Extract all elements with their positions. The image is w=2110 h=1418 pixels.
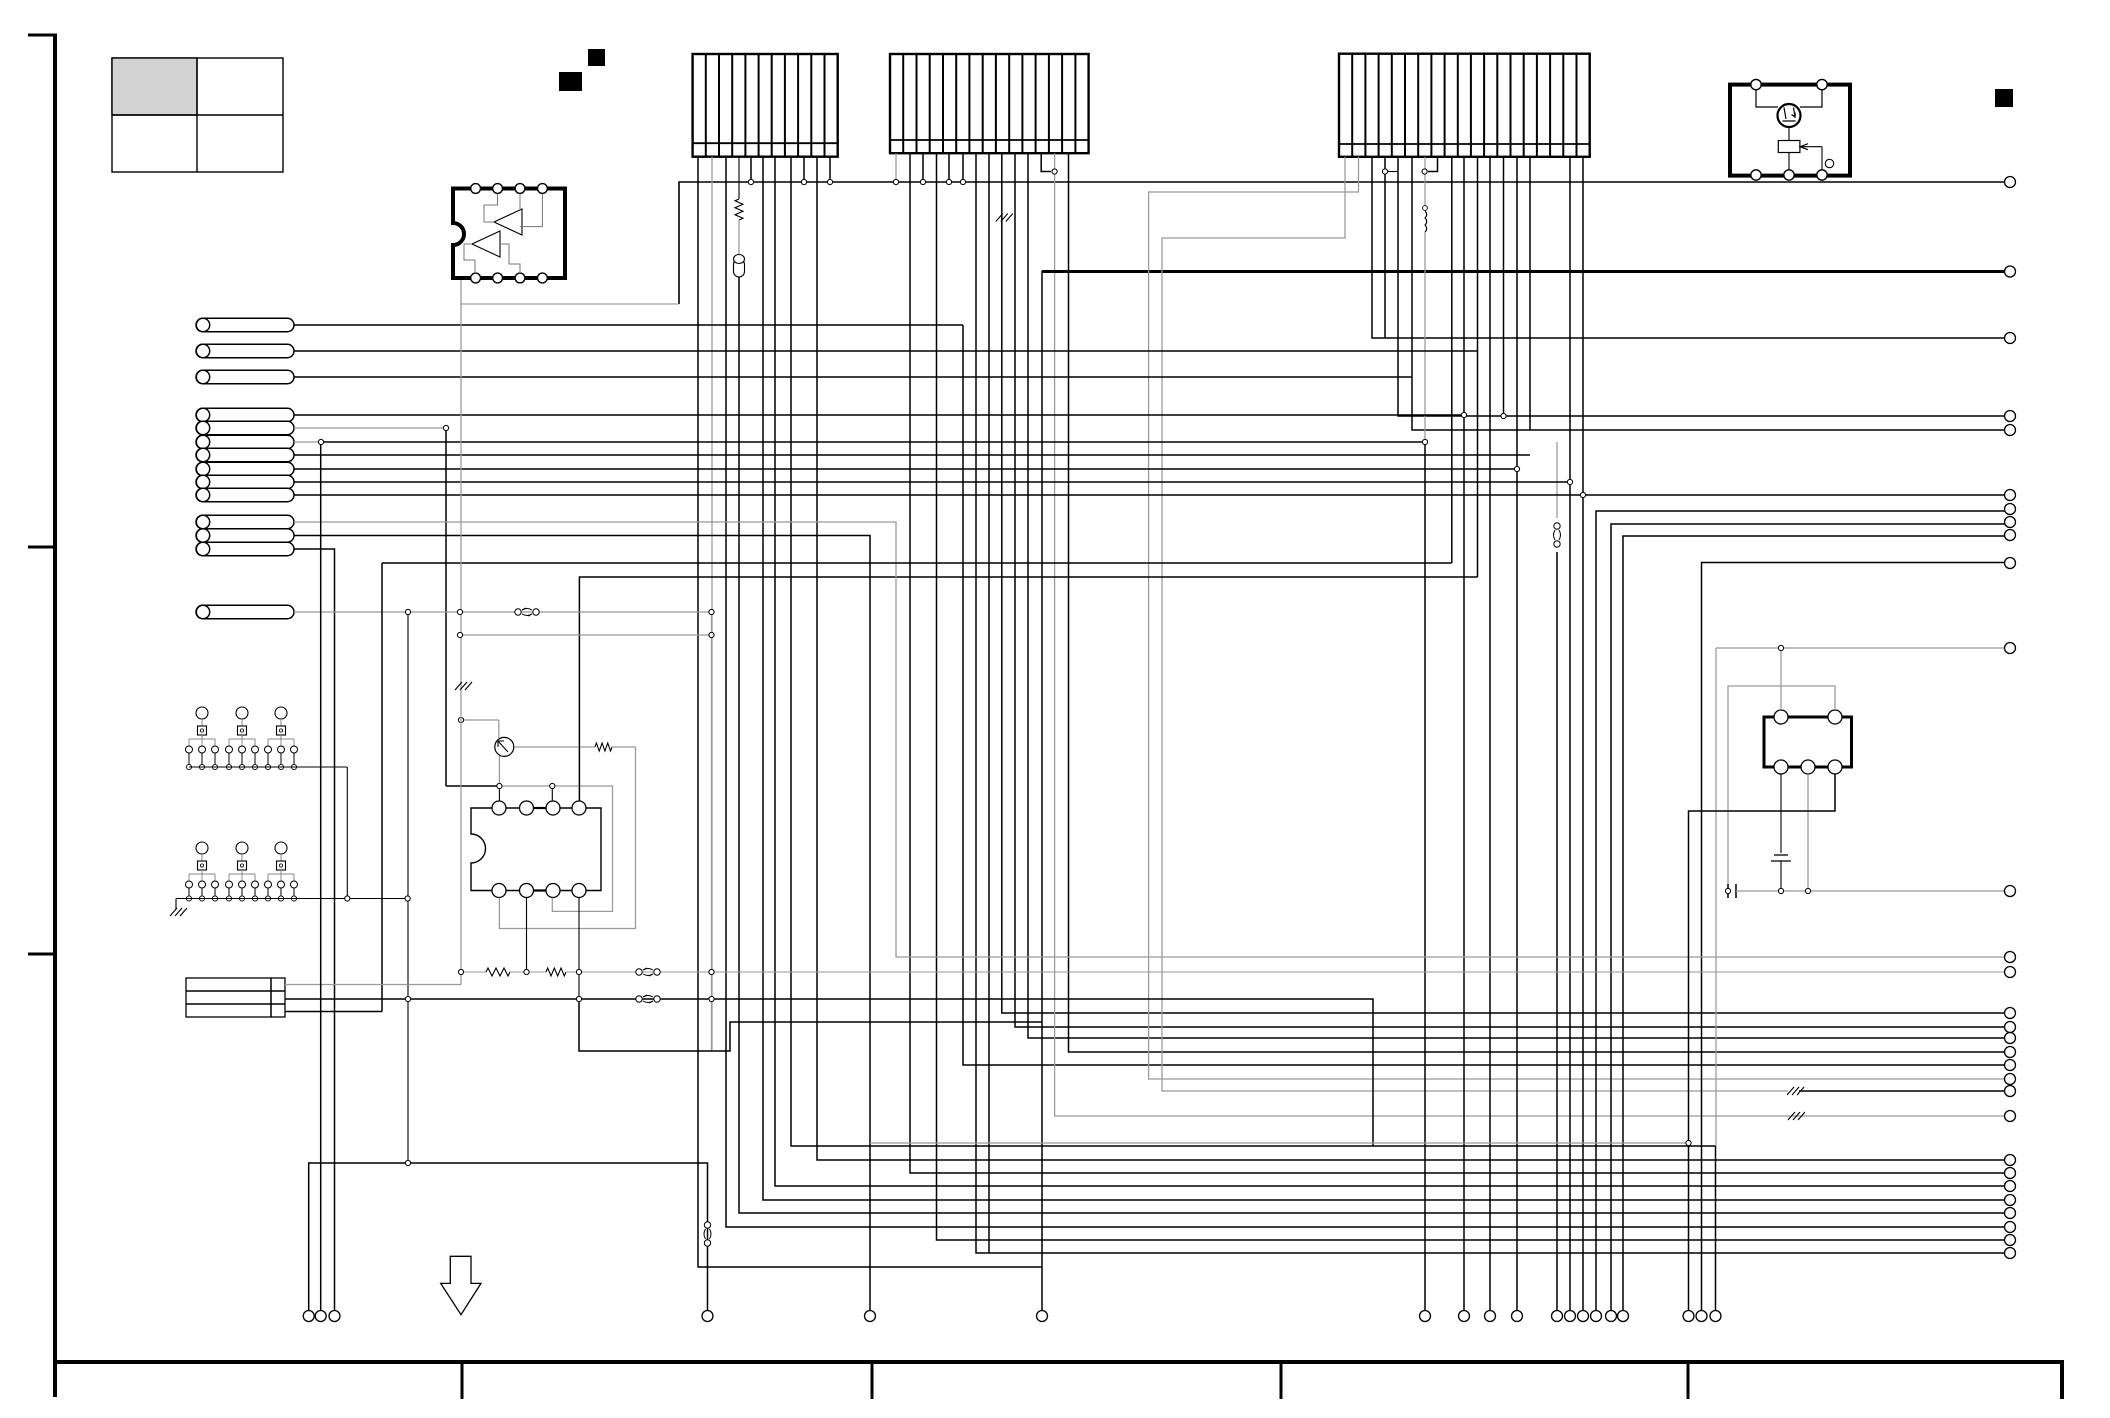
wire CN1-10 — [817, 157, 2005, 1160]
wire supply net-271 (thick) — [1042, 272, 2005, 1311]
wire net-577 — [579, 577, 1477, 801]
wire CN2-4 — [937, 153, 2005, 1240]
wire M2 pin B3 to drop — [1689, 774, 1836, 1311]
switch S1 — [186, 707, 219, 770]
switch S2 — [226, 707, 259, 770]
wire net-562 right — [1702, 563, 2005, 1311]
wire CN2-12 stub — [1041, 153, 1051, 171]
wire net B2 drop (gray) — [445, 428, 447, 786]
coupling symbol K2 — [636, 995, 660, 1003]
op-amp buffer IC U1 — [453, 184, 565, 283]
legend table — [112, 58, 283, 172]
wire pin row B2 (gray) — [294, 427, 446, 429]
wire U1 output to bus — [461, 280, 679, 304]
terminal pin P3 — [196, 370, 294, 383]
wire net-1146 link — [1372, 1145, 1374, 1147]
wire pin row B1 — [294, 414, 1464, 416]
module M1 pins — [1751, 79, 1827, 180]
wire net A1 drop — [963, 325, 2005, 1065]
wire CN2-5 — [948, 153, 950, 182]
wire CN3-7 (gray) — [1424, 157, 1426, 205]
wire net-1051 step — [579, 999, 1042, 1051]
wire CN1-9 — [803, 157, 805, 182]
ground G3 on net-1116 — [1788, 1112, 1805, 1120]
wire net-648 (gray) — [1716, 648, 2005, 1146]
wire CN2-2 — [910, 153, 2005, 1173]
wire CN3-7 lower (gray) — [1424, 232, 1426, 442]
registration mark 2 — [588, 49, 605, 66]
resistor R1 on CN1-4 — [735, 157, 743, 254]
wire bus link — [346, 767, 348, 899]
wire pin row B5 — [294, 468, 1517, 470]
wire CN3-1 (gray) — [1162, 157, 1788, 1091]
wire CN3-17 (gray) — [1556, 442, 1558, 518]
module M2 box — [1764, 717, 1852, 767]
inductor L1 — [1423, 206, 1428, 232]
module M1 internal transistor Q1 — [1756, 90, 1834, 170]
wire pin row C1 (gray) — [294, 522, 2005, 957]
wire CN2-11 — [1028, 153, 2005, 1038]
terminal pin P1 — [196, 318, 294, 331]
wire CN2-7 — [976, 153, 2005, 1253]
node N1 above U2 — [446, 786, 552, 801]
wire CN3-10 — [1463, 157, 1465, 1311]
wire CN3-4 — [1384, 157, 1386, 338]
wire pin row B7 — [294, 494, 1583, 496]
terminal pin P9 — [196, 475, 294, 488]
wire CN2-13 (gray) — [1055, 153, 2005, 1116]
wire CN3-6 — [1412, 157, 2005, 430]
switch S6 — [265, 842, 298, 901]
capacitor C3 — [1771, 774, 1791, 891]
wire pin row C2 — [294, 536, 870, 1311]
ground G5 on trunk x461 — [455, 682, 472, 690]
terminal pin P4 — [196, 408, 294, 421]
wire CN3-14 — [1516, 157, 1518, 1311]
wire CN3-19 — [1582, 157, 1584, 1311]
wire trunk x461 (gray) — [460, 304, 462, 985]
connector CN1 — [693, 54, 838, 157]
IC U2 pins — [492, 801, 586, 898]
wire trunk x408 — [407, 612, 409, 1163]
wire Q2 base — [461, 720, 499, 738]
wire CN1-8 — [791, 157, 1716, 1311]
terminal pin P6 — [196, 435, 294, 448]
wire CN3-5 — [1398, 157, 2005, 416]
connector CN3 — [1339, 54, 1590, 157]
wire pin row D (gray) — [294, 611, 712, 613]
capacitor C1 on CN1-4 — [734, 255, 745, 278]
IC U2 pin links — [534, 808, 547, 891]
wire CN3-4 stub — [1388, 171, 1398, 173]
switch S3 — [265, 707, 298, 770]
wire CN1-4 lower — [739, 277, 2005, 1213]
wire CN3-15 — [1529, 157, 1531, 430]
wire CN2-1 (gray) — [895, 153, 897, 182]
terminal pin P10 — [196, 488, 294, 501]
wire CN3-18 — [1569, 157, 1571, 1311]
wire CN2-6 — [962, 153, 964, 182]
wire CN3-3 — [1372, 157, 2005, 338]
coupling symbol K4 — [515, 608, 539, 616]
wire net-635 (gray) — [461, 634, 712, 636]
wire CN2-3 — [922, 153, 924, 182]
wire net-1143 (gray) — [870, 1142, 1689, 1144]
capacitor C2 — [1728, 884, 1736, 898]
wire U2 pin drops — [527, 898, 580, 1000]
ground G2 on CN2-6 — [996, 214, 1013, 222]
resistor network row net-972 (gray) — [461, 968, 2005, 976]
module M1 box — [1730, 85, 1850, 176]
wire pin row B6 — [294, 481, 1570, 483]
registration mark 1 — [559, 72, 582, 91]
wire net-1091 right — [1799, 1090, 2005, 1092]
resistor R2 — [514, 743, 636, 751]
wire CN1-3 — [726, 157, 2005, 1227]
terminal pin P14 — [196, 605, 294, 618]
wire block row2 net-999 — [285, 999, 1373, 1146]
terminal pin P12 — [196, 529, 294, 542]
wire CN3-2 (gray) — [1149, 157, 2005, 1079]
ground G1 — [170, 899, 187, 917]
flow arrow — [441, 1256, 481, 1314]
coupling symbol K1 — [636, 968, 660, 976]
wire pin row A3 — [294, 376, 1412, 378]
terminal pin P7 — [196, 448, 294, 461]
switch S4 — [186, 842, 219, 901]
wire U2 node loop (gray) — [499, 786, 612, 911]
ground G4 on net-1091 — [1787, 1087, 1804, 1095]
wire CN3-13 — [1503, 157, 1505, 416]
resistor R3 — [0, 0, 1, 1]
wire M2 top pin2 loop (gray) — [1728, 686, 1835, 884]
wire CN3-12 — [1489, 157, 1491, 1311]
wire net-511 — [1596, 511, 2005, 1311]
wire drop x320 — [320, 442, 322, 1311]
wire pin row B3 — [294, 441, 321, 443]
wire CN3-9 — [1451, 157, 1453, 563]
wire net-563 — [382, 562, 1452, 564]
coupling symbol K3 vertical — [1554, 523, 1561, 547]
wire CN1-7 — [775, 157, 2005, 1186]
registration mark 3 — [1995, 89, 2013, 107]
wire Q2 emitter to node — [498, 756, 500, 783]
wire CN3-7 bottom — [1424, 442, 1426, 1311]
terminal circles right edge — [2005, 177, 2016, 1259]
terminal pin P5 — [196, 421, 294, 434]
border frame left rule — [28, 35, 57, 1397]
wire pin row A2 — [294, 350, 1478, 352]
terminal pin P8 — [196, 462, 294, 475]
wire CN3-8 stub — [1428, 157, 1438, 172]
terminal pin P13 — [196, 542, 294, 555]
module M2 pins — [1774, 710, 1842, 774]
border frame bottom rule — [53, 1360, 2062, 1399]
wire CN1-6 — [763, 157, 2005, 1200]
switch bus 1 — [189, 766, 347, 768]
wire net-495 right — [1583, 494, 2005, 496]
coupling symbol K5 vertical — [704, 1222, 711, 1246]
wire CN1-11 — [829, 157, 831, 182]
wire U2 feedback loop — [499, 747, 635, 929]
wire CN1-2 (gray) — [711, 157, 713, 1050]
wire net-536 — [1623, 536, 2005, 1311]
terminal pin P2 — [196, 344, 294, 357]
wire CN2-9 — [1002, 153, 2005, 1013]
wire CN2-14 — [1069, 153, 2005, 1052]
switch bus 2 — [176, 898, 408, 900]
wire pin row A1 — [294, 324, 963, 326]
wire drop x382 — [381, 563, 383, 1012]
wire CN2-10 — [1015, 153, 2005, 1027]
wire CN1-1 — [698, 157, 1042, 1267]
wire pin row B4 — [294, 454, 1530, 456]
wire bus net-182 — [679, 182, 2005, 304]
wire pin row C3 — [294, 549, 335, 1311]
wire CN3-17 lower — [1556, 552, 1558, 1311]
connector CN2 — [890, 54, 1089, 153]
wire net-1163 — [309, 1163, 708, 1311]
switch S5 — [226, 842, 259, 901]
wire CN1-5 — [750, 157, 752, 182]
wire trunk x712 (gray) — [711, 612, 713, 1051]
wire block row3 — [285, 1011, 382, 1013]
wire block row1 (gray) — [285, 984, 461, 986]
terminal circles bottom edge — [303, 1311, 1721, 1322]
wire CN2-8 — [988, 153, 990, 1253]
wire net-891 — [1736, 890, 2005, 892]
transistor Q2 — [495, 737, 514, 756]
wire M2 pin B2 (gray) — [1807, 774, 1809, 891]
wire CN3-11 — [1477, 157, 1479, 577]
wire net-524 — [1611, 524, 2005, 1311]
connector block CN4 — [186, 978, 285, 1017]
IC U2 body — [471, 808, 601, 891]
terminal pin P11 — [196, 515, 294, 528]
